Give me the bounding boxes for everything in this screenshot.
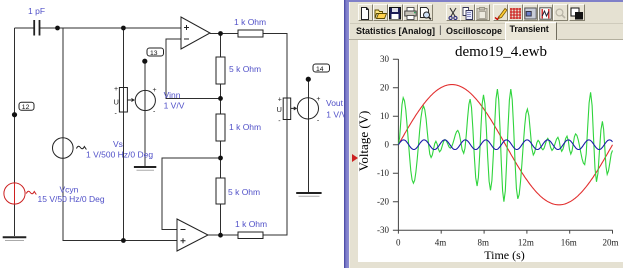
svg-text:16m: 16m (561, 238, 577, 248)
active tab (505, 22, 558, 40)
capacitor C1 1 pF (34, 20, 39, 36)
svg-text:1 V/V: 1 V/V (164, 100, 185, 110)
svg-text:+: + (153, 87, 157, 94)
resistor R5 1k (bottom) (238, 232, 263, 239)
window body (349, 0, 623, 268)
window title strip (vertical blue) (344, 0, 350, 268)
svg-text:-20: -20 (377, 196, 389, 206)
svg-text:Voltage (V): Voltage (V) (356, 111, 371, 172)
svg-text:U: U (277, 105, 282, 114)
node 14 label box (313, 64, 330, 73)
wire chain between 1k and 5k (220, 141, 222, 178)
svg-text:13: 13 (150, 50, 158, 57)
wire chain between 5k and 1k (220, 84, 222, 114)
node 12 label box (19, 102, 34, 111)
svg-text:1 k Ohm: 1 k Ohm (229, 122, 261, 132)
wire middle column upper (122, 28, 124, 88)
wire chain top (220, 34, 222, 58)
source Vs (AC 1V 500Hz) (53, 138, 87, 159)
wire middle column lower (122, 112, 124, 241)
wire R1 to right column down to Vout (263, 34, 287, 99)
svg-text:Vout: Vout (326, 98, 344, 108)
svg-text:-: - (317, 118, 320, 125)
wire top horizontal (15, 27, 34, 29)
wire node 13 lead (144, 61, 146, 90)
svg-text:20m: 20m (602, 238, 618, 248)
y tick labels (377, 54, 390, 235)
svg-text:+: + (114, 86, 118, 93)
white chart page (358, 40, 623, 262)
wire U1 output (210, 33, 238, 35)
trace red (node 12) (398, 85, 612, 205)
wire U2 output (208, 234, 238, 236)
svg-text:+: + (316, 96, 320, 103)
trace green (node 14) (398, 89, 612, 202)
node 13 label box (147, 48, 164, 57)
wire node 14 lead (307, 79, 309, 98)
wire Vout circle to ground (307, 119, 309, 192)
resistor R4 5k (chain bottom) (216, 178, 225, 204)
svg-text:Vinn: Vinn (164, 90, 181, 100)
VCVS Vinn (119, 88, 155, 113)
label Vinn polarity marks (114, 86, 157, 118)
svg-text:Vs: Vs (113, 139, 123, 149)
trace blue (node 13) (398, 140, 612, 150)
VCVS Vout (283, 98, 318, 120)
resistor R1 1k (top) (238, 30, 263, 37)
wire Vs bottom lead to bottom rail (63, 159, 177, 241)
wire op-amp U1 minus feedback (166, 39, 221, 98)
svg-text:-: - (153, 109, 156, 116)
ground (under Vinn) (134, 167, 156, 170)
svg-text:30: 30 (380, 54, 390, 64)
svg-text:1 V/V: 1 V/V (326, 109, 345, 119)
source Vcyn (AC 15V 50Hz, red) (4, 183, 36, 205)
svg-text:1 V/500 Hz/0 Deg: 1 V/500 Hz/0 Deg (86, 150, 153, 160)
svg-text:1 k Ohm: 1 k Ohm (235, 219, 267, 229)
wire left column lower lead (14, 205, 16, 237)
wire through Vinn rect (122, 88, 124, 113)
op-amp U2 (177, 219, 208, 251)
svg-text:20: 20 (380, 82, 390, 92)
svg-text:+: + (278, 97, 282, 104)
svg-text:15 V/50 Hz/0 Deg: 15 V/50 Hz/0 Deg (38, 194, 105, 204)
red selection marker (352, 154, 358, 162)
svg-text:4m: 4m (435, 238, 447, 248)
wire through Vinn circle (144, 91, 146, 111)
svg-text:0: 0 (396, 238, 401, 248)
svg-text:demo19_4.ewb: demo19_4.ewb (455, 44, 547, 60)
svg-text:5 k Ohm: 5 k Ohm (229, 64, 261, 74)
x tick labels (396, 238, 619, 248)
ground (left) (3, 237, 27, 240)
svg-text:12: 12 (22, 104, 30, 111)
svg-text:12m: 12m (518, 238, 534, 248)
chart (345, 0, 623, 268)
svg-text:5 k Ohm: 5 k Ohm (228, 187, 260, 197)
svg-text:Time (s): Time (s) (484, 248, 525, 262)
op-amp U1 (181, 17, 210, 49)
tab bar (350, 23, 623, 41)
window top edge (blue) (347, 0, 623, 2)
line under inactive tabs (349, 39, 505, 40)
wire through Vout circle (307, 98, 309, 119)
svg-text:U: U (114, 98, 119, 107)
axes (393, 59, 613, 234)
svg-text:8m: 8m (478, 238, 490, 248)
wire cap to op-amp plus input (40, 27, 181, 29)
resistor R3 1k (chain mid) (216, 114, 225, 141)
wire chain bottom (220, 204, 222, 235)
svg-text:0: 0 (385, 139, 390, 149)
svg-text:1 k Ohm: 1 k Ohm (234, 17, 266, 27)
wire through Vout rect (286, 98, 288, 120)
wire Vinn to ground (144, 111, 146, 167)
svg-text:Vcyn: Vcyn (60, 185, 79, 195)
wire left column (14, 28, 16, 183)
label Vout polarity marks (278, 96, 321, 125)
svg-text:-30: -30 (377, 225, 389, 235)
wire Vs top lead (58, 28, 63, 138)
svg-text:10: 10 (380, 111, 390, 121)
svg-text:-10: -10 (377, 168, 389, 178)
wire Vout rect bottom down (263, 120, 287, 236)
resistor R2 5k (chain top) (216, 57, 225, 84)
svg-text:1 pF: 1 pF (28, 6, 45, 16)
svg-text:-: - (278, 118, 281, 125)
wire through Vs source (62, 138, 64, 159)
svg-text:14: 14 (316, 66, 324, 73)
wire op-amp U2 minus feedback (162, 158, 221, 230)
ground (right) (296, 193, 321, 196)
svg-text:-: - (115, 111, 118, 118)
